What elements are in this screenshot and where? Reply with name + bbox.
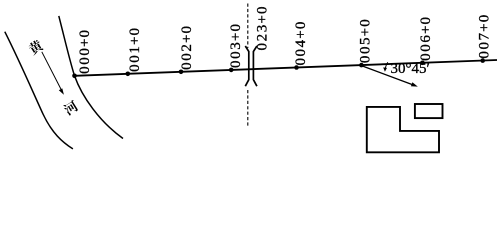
svg-text:0: 0 — [357, 47, 373, 55]
svg-text:0: 0 — [477, 42, 493, 50]
station dot 0+700 — [480, 58, 485, 63]
station dot 0+600 — [420, 61, 425, 66]
svg-text:0: 0 — [179, 62, 195, 70]
svg-text:+: + — [418, 26, 434, 34]
svg-text:3: 3 — [228, 42, 244, 50]
svg-text:5: 5 — [357, 37, 373, 45]
station dot 0+500 — [359, 63, 364, 68]
building main L-shape — [367, 107, 439, 152]
svg-text:0: 0 — [357, 19, 373, 27]
svg-text:0: 0 — [293, 58, 309, 66]
svg-text:0: 0 — [254, 43, 270, 51]
river flow arrow — [42, 52, 61, 90]
svg-text:0: 0 — [418, 17, 434, 25]
svg-text:+: + — [77, 39, 93, 47]
svg-text:0: 0 — [293, 49, 309, 57]
svg-text:0: 0 — [254, 7, 270, 15]
svg-text:+: + — [477, 23, 493, 31]
branch line from 0+500 — [361, 66, 412, 85]
svg-text:0: 0 — [127, 28, 143, 36]
svg-text:4: 4 — [293, 39, 309, 47]
svg-text:+: + — [179, 35, 195, 43]
svg-text:0: 0 — [77, 57, 93, 65]
station dot 0+300 — [229, 68, 234, 73]
station dot 0+400 — [294, 65, 299, 70]
svg-text:0: 0 — [127, 55, 143, 63]
dashed station line 0+320 lower — [247, 90, 249, 126]
river name 黄 — [29, 40, 44, 55]
svg-text:+: + — [357, 28, 373, 36]
svg-text:3: 3 — [254, 25, 270, 33]
svg-text:2: 2 — [179, 44, 195, 52]
break symbol (bridge) left stroke — [245, 46, 249, 86]
svg-text:0: 0 — [477, 15, 493, 23]
river left bank — [5, 32, 73, 149]
svg-text:0: 0 — [357, 56, 373, 64]
svg-text:0: 0 — [228, 24, 244, 32]
svg-text:+: + — [254, 15, 270, 23]
river right bank — [59, 16, 123, 139]
svg-text:0: 0 — [418, 44, 434, 52]
svg-text:0: 0 — [179, 53, 195, 61]
break symbol (bridge) right stroke — [253, 46, 257, 86]
svg-text:+: + — [127, 37, 143, 45]
svg-text:0: 0 — [77, 66, 93, 74]
station dot 0+100 — [126, 72, 131, 77]
svg-text:0: 0 — [293, 22, 309, 30]
svg-text:0: 0 — [179, 26, 195, 34]
svg-text:+: + — [293, 30, 309, 38]
svg-text:0: 0 — [477, 51, 493, 59]
svg-text:1: 1 — [127, 46, 143, 54]
svg-text:0: 0 — [228, 51, 244, 59]
svg-text:7: 7 — [477, 32, 493, 40]
river name 河 — [63, 100, 78, 115]
dashed station line 0+320 upper — [247, 4, 249, 49]
building small rectangle — [415, 104, 443, 118]
svg-text:2: 2 — [254, 34, 270, 42]
svg-text:6: 6 — [418, 35, 434, 43]
station dot 0+000 — [72, 74, 77, 79]
svg-text:30°45′: 30°45′ — [391, 61, 430, 77]
angle arc arrow — [385, 62, 388, 69]
svg-text:0: 0 — [228, 60, 244, 68]
svg-text:0: 0 — [77, 48, 93, 56]
main survey line — [75, 60, 498, 76]
svg-text:0: 0 — [77, 30, 93, 38]
svg-text:0: 0 — [127, 64, 143, 72]
station dot 0+200 — [179, 70, 184, 75]
svg-text:0: 0 — [418, 53, 434, 61]
branch arrowhead — [411, 82, 418, 86]
svg-text:+: + — [228, 33, 244, 41]
